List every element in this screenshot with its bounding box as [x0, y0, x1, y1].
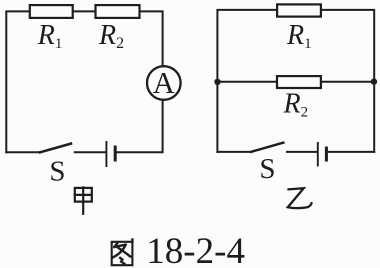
label 甲 (drawn glyph): [75, 187, 92, 213]
wire middle branch right (乙): [322, 81, 374, 83]
junction node right (乙): [371, 78, 377, 84]
battery cell 乙 : long thin plate: [317, 143, 319, 166]
svg-text:R1: R1: [286, 20, 312, 52]
wire top right 甲: [141, 11, 163, 65]
ammeter A: [147, 66, 181, 100]
wire between R1 and R2 (甲): [74, 10, 95, 12]
svg-text:18-2-4: 18-2-4: [146, 231, 245, 268]
battery cell 乙 : short thick plate: [325, 148, 328, 160]
resistor R1 (甲): [30, 5, 73, 18]
battery cell 甲 : long thin plate: [105, 142, 107, 166]
wire switch contact to battery (乙): [287, 151, 317, 153]
wire battery to bottom right corner (乙): [328, 151, 375, 153]
label 乙 (drawn glyph): [288, 188, 312, 208]
svg-text:A: A: [153, 66, 175, 100]
svg-text:S: S: [259, 153, 275, 185]
svg-text:R2: R2: [98, 20, 124, 52]
switch S blade (乙): [251, 143, 283, 152]
junction node left (乙): [214, 79, 220, 85]
wire left side circuit 乙: [217, 10, 276, 152]
wire top right 乙: [322, 10, 374, 152]
battery cell 甲 : short thick plate: [114, 147, 117, 160]
svg-text:R2: R2: [283, 89, 309, 121]
wire middle branch left (乙): [217, 81, 276, 83]
wire left side circuit 甲: [6, 11, 29, 152]
svg-text:S: S: [49, 156, 65, 188]
resistor R1 (乙): [277, 4, 321, 16]
switch S blade (甲): [40, 144, 71, 153]
svg-text:R1: R1: [37, 20, 63, 52]
wire ammeter to bottom corner 甲: [117, 101, 163, 153]
resistor R2 (甲): [96, 5, 140, 18]
resistor R2 (乙): [277, 76, 321, 88]
wire battery to switch contact 甲: [75, 151, 106, 153]
wire bottom left 乙: [217, 151, 251, 153]
wire bottom left 甲: [6, 151, 40, 153]
label 图 (drawn glyph): [112, 240, 133, 266]
